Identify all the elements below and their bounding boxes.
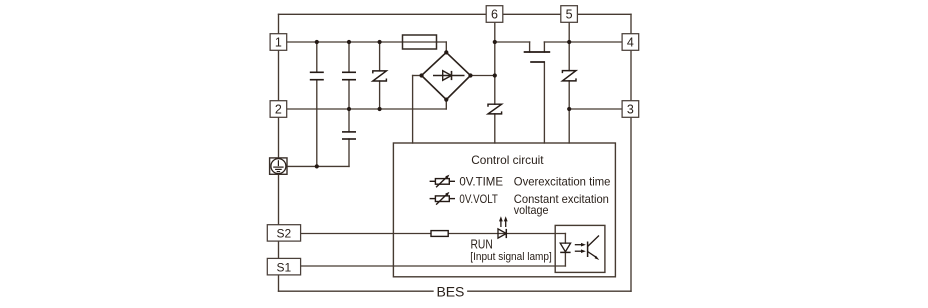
- zener Z2: [488, 104, 502, 114]
- node bus mosfet: [493, 40, 497, 44]
- svg-text:2: 2: [275, 103, 282, 117]
- node T5 Z3: [567, 40, 571, 44]
- svg-text:[Input signal lamp]: [Input signal lamp]: [470, 251, 552, 263]
- svg-text:BES: BES: [437, 284, 465, 300]
- control circuit box: [393, 143, 615, 277]
- node Z3 T3: [567, 107, 571, 111]
- node T2 wire C2C3: [347, 107, 351, 111]
- svg-text:Overexcitation time: Overexcitation time: [514, 174, 611, 188]
- wire right bus: [630, 14, 632, 291]
- node top wire Z1: [378, 40, 382, 44]
- wire left bus: [278, 14, 280, 291]
- capacitor C2: [342, 71, 356, 73]
- diode bridge D1: [422, 52, 471, 99]
- svg-text:4: 4: [627, 36, 634, 50]
- wire opto LED cathode lead: [564, 252, 566, 266]
- wire S2 drop to opto LED: [564, 234, 566, 244]
- transistor Q1 mosfet: [524, 52, 551, 62]
- wire bridge left to control box: [412, 76, 414, 144]
- terminal 2: [270, 101, 287, 118]
- wire T2 horizontal y109: [279, 108, 447, 110]
- svg-text:6: 6: [491, 8, 498, 22]
- node bridge top: [444, 50, 448, 54]
- zener Z3: [562, 71, 576, 81]
- terminal 5: [561, 6, 578, 23]
- wire mosfet left: [495, 41, 530, 43]
- node T2 wire Z1: [378, 107, 382, 111]
- svg-text:Control circuit: Control circuit: [471, 153, 544, 167]
- terminal 3: [622, 101, 639, 118]
- node top wire C2: [347, 40, 351, 44]
- wire S2 line: [301, 233, 566, 235]
- wire earth horizontal: [287, 165, 349, 167]
- wire bottom line right of BES: [468, 290, 631, 292]
- potentiometer P2: [430, 192, 455, 205]
- node bus bridge right: [493, 73, 497, 77]
- terminal 6: [486, 6, 503, 23]
- LED D2 RUN lamp: [498, 216, 508, 238]
- svg-text:0V.TIME: 0V.TIME: [459, 174, 503, 188]
- wire S1 line: [301, 265, 566, 267]
- wire C3 leads: [348, 109, 350, 132]
- wire to T4: [569, 41, 622, 43]
- earth ground symbol: [270, 158, 287, 174]
- terminal 4: [622, 34, 639, 51]
- wire middle bus x494.8 upper: [494, 22, 496, 104]
- svg-text:voltage: voltage: [514, 203, 549, 217]
- wire x569.2 lower to control box: [568, 81, 570, 143]
- wire mosfet right: [544, 41, 569, 43]
- wire T5 drop x569.2 upper: [568, 22, 570, 70]
- svg-text:5: 5: [566, 8, 573, 22]
- zener Z1: [373, 71, 387, 81]
- fuse F1: [403, 35, 437, 49]
- node bridge bottom: [444, 98, 448, 102]
- svg-text:3: 3: [627, 103, 634, 117]
- coupling arrows: [575, 243, 586, 253]
- transistor Q2 photo: [588, 236, 600, 261]
- wire to T3: [569, 108, 622, 110]
- optocoupler U1 box: [555, 225, 605, 272]
- svg-text:RUN: RUN: [471, 237, 493, 252]
- node bridge right: [468, 73, 472, 77]
- terminal S1: [267, 258, 300, 275]
- wire riser to bridge bottom: [445, 100, 447, 109]
- wire C2 leads: [348, 42, 350, 72]
- node earth wire C1: [315, 164, 319, 168]
- node top wire C1: [315, 40, 319, 44]
- wire top horizontal y42: [279, 41, 447, 43]
- wire mosfet gate to control box: [543, 62, 545, 143]
- svg-text:S1: S1: [277, 260, 292, 274]
- wire top line: [279, 13, 632, 15]
- wire Z1 leads: [379, 42, 381, 71]
- svg-text:1: 1: [275, 36, 282, 50]
- terminal 1: [270, 34, 287, 51]
- wire bottom line left of BES: [279, 290, 434, 292]
- node bridge left: [419, 73, 423, 77]
- wire bridge right to bus: [471, 75, 495, 77]
- wire middle bus x494.8 lower: [494, 114, 496, 143]
- wire C1 leads: [316, 42, 318, 72]
- svg-text:0V.VOLT: 0V.VOLT: [459, 192, 498, 206]
- junction dots: [315, 40, 572, 169]
- capacitor C3: [342, 131, 356, 133]
- terminal S2: [267, 225, 300, 241]
- svg-text:S2: S2: [277, 227, 292, 241]
- wire drop to bridge top: [445, 42, 447, 52]
- LED D3 opto emitter: [560, 243, 570, 252]
- capacitor C1: [310, 71, 324, 73]
- resistor R1: [431, 231, 448, 237]
- wire bridge left stub: [413, 75, 422, 77]
- potentiometer P1: [430, 175, 455, 188]
